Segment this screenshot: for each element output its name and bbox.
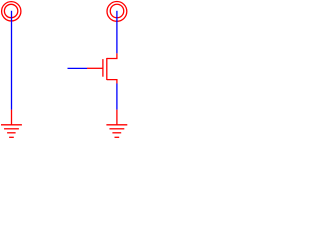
wire (gate stub) <box>68 67 88 69</box>
ground (left) <box>1 110 22 138</box>
wire (right port to drain) <box>116 11 118 54</box>
wire (source to ground) <box>116 84 118 110</box>
wire (left port to ground) <box>11 11 13 110</box>
port P1 <box>2 2 21 21</box>
transistor M1 <box>87 53 117 83</box>
port P2 <box>107 2 127 22</box>
ground (right) <box>106 110 127 138</box>
